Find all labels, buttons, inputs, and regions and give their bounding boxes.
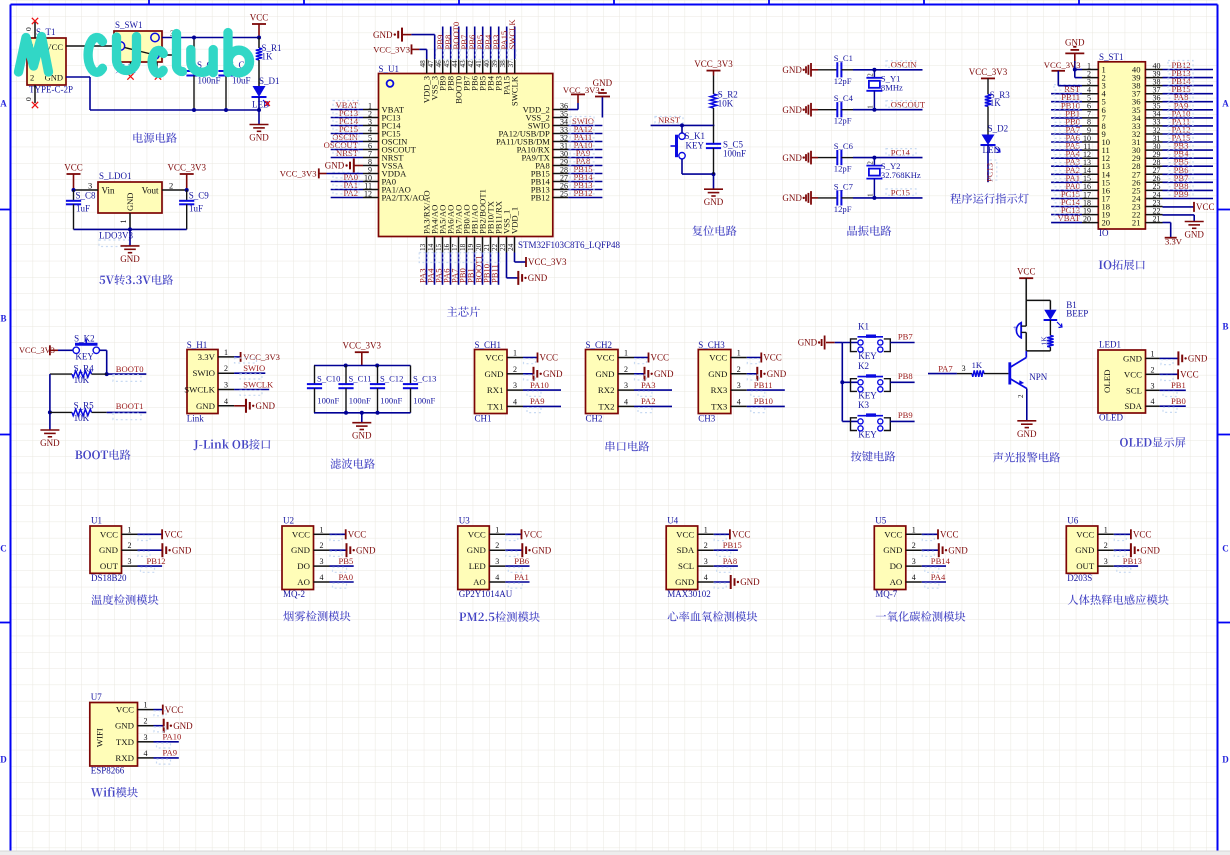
svg-text:VCC: VCC <box>468 529 486 539</box>
connector S_H1 J-Link <box>187 350 218 414</box>
U1 pin 3 PC14 <box>363 125 379 127</box>
svg-text:2: 2 <box>1104 541 1108 550</box>
svg-text:1: 1 <box>119 220 128 224</box>
svg-text:100nF: 100nF <box>198 76 221 86</box>
U1 pin 15 PA5/AO <box>442 237 444 253</box>
svg-text:CH1: CH1 <box>475 414 492 424</box>
capacitor S_C8 1uF <box>73 190 75 201</box>
svg-text:4: 4 <box>1151 397 1155 406</box>
svg-text:S_CH2: S_CH2 <box>586 340 613 350</box>
svg-text:2: 2 <box>224 364 228 373</box>
title U7 <box>91 788 103 796</box>
wire net PC14 <box>853 157 923 159</box>
svg-text:GND: GND <box>115 721 134 731</box>
S_ST1 pin 1 <box>1082 69 1098 71</box>
svg-text:B: B <box>0 314 6 324</box>
svg-text:PB13: PB13 <box>1123 556 1142 566</box>
resistor S_R3 1K <box>985 94 991 106</box>
S_ST1 pin 5 <box>1082 101 1098 103</box>
svg-text:10K: 10K <box>74 375 90 385</box>
title reset circuit <box>692 225 702 235</box>
svg-text:12pF: 12pF <box>834 76 852 86</box>
U1 pin 20 PB2/BOOT1 <box>482 237 484 253</box>
capacitor S_C6 12pF <box>818 157 837 159</box>
svg-text:GND: GND <box>782 153 802 163</box>
svg-text:U7: U7 <box>91 692 102 702</box>
LED S_D2 <box>982 135 995 146</box>
power VCC at LED1 pin2 <box>1160 373 1179 375</box>
wire emitter to ground <box>1026 389 1028 421</box>
net PA2 at S_CH2 TX <box>634 405 672 407</box>
U1 pin 6 OSCOUT <box>363 149 379 151</box>
svg-text:100nF: 100nF <box>380 396 402 406</box>
svg-text:2: 2 <box>128 541 132 550</box>
svg-text:21: 21 <box>1132 218 1141 228</box>
svg-text:AO: AO <box>890 577 903 587</box>
S_ST1 pin 13 <box>1082 165 1098 167</box>
S_ST1 pin 10 <box>1082 141 1098 143</box>
key S_K1 KEY <box>679 133 685 139</box>
U1 pin 18 PB0/AO <box>466 237 468 253</box>
svg-text:GND: GND <box>595 369 614 379</box>
svg-text:VCC_3V3: VCC_3V3 <box>1044 60 1081 70</box>
U1 pin 24 VDD_1 <box>514 237 516 253</box>
capacitor S_C13 100nF <box>410 366 412 385</box>
svg-text:PB12: PB12 <box>147 556 166 566</box>
ground GND at U4 pin 4 <box>714 581 731 583</box>
svg-text:OUT: OUT <box>100 561 119 571</box>
svg-text:Vout: Vout <box>142 186 159 196</box>
svg-text:S_K2: S_K2 <box>74 334 95 344</box>
svg-text:CH3: CH3 <box>698 414 716 424</box>
svg-text:GND: GND <box>1065 37 1085 47</box>
module U6 D203S body <box>1066 526 1098 573</box>
U1 pin 30 PA9/TX <box>553 157 568 159</box>
module U5 MQ-7 body <box>874 526 906 590</box>
title filter circuit <box>330 458 341 468</box>
svg-text:S_C10: S_C10 <box>317 374 340 384</box>
svg-text:VCC: VCC <box>1180 370 1199 380</box>
svg-text:VBAT: VBAT <box>1058 213 1081 223</box>
svg-text:PA0: PA0 <box>339 572 354 582</box>
svg-text:GND: GND <box>99 545 118 555</box>
wire pin2 <box>162 189 187 191</box>
svg-text:RX3: RX3 <box>711 385 728 395</box>
S_ST1 pin 28 <box>1145 165 1162 167</box>
svg-text:4: 4 <box>912 573 916 582</box>
svg-text:2: 2 <box>144 717 148 726</box>
svg-text:1K: 1K <box>990 98 1002 108</box>
U1 pin 16 PA6/AO <box>450 237 452 253</box>
svg-text:GND: GND <box>249 133 269 143</box>
svg-text:B: B <box>1222 322 1228 332</box>
U1 pin 7 NRST <box>363 157 379 159</box>
svg-text:1uF: 1uF <box>76 204 90 214</box>
svg-text:21: 21 <box>1153 214 1161 223</box>
svg-text:12pF: 12pF <box>834 204 852 214</box>
svg-text:3: 3 <box>624 381 628 390</box>
svg-text:S_C4: S_C4 <box>834 93 854 103</box>
zone ticks left <box>0 209 11 211</box>
svg-text:VCC_3V3: VCC_3V3 <box>280 168 317 178</box>
title IO expansion <box>1099 261 1103 269</box>
U1 pin 35 VSS_2 <box>553 117 568 119</box>
title U1 <box>91 595 102 605</box>
svg-text:PB14: PB14 <box>931 556 951 566</box>
S_ST1 pin 32 <box>1145 133 1162 135</box>
power VCC_3V3 at S_H1 pin1 <box>234 356 241 358</box>
top rail filter <box>314 365 411 367</box>
svg-text:PB12: PB12 <box>573 188 592 198</box>
title crystal circuit <box>847 226 857 236</box>
bottom wire LDO3V3 net <box>74 228 187 230</box>
svg-text:GND: GND <box>704 197 724 207</box>
U1 pin 26 PB13 <box>553 189 568 191</box>
ground GND at U1 pin23 VSS_1 <box>506 253 508 278</box>
S_ST1 pin 30 <box>1145 149 1162 151</box>
S_ST1 pin 26 <box>1145 181 1162 183</box>
module U4 MAX30102 body <box>666 526 698 590</box>
net PA9 at S_CH1 TX <box>523 405 561 407</box>
svg-text:3: 3 <box>495 557 499 566</box>
svg-text:U6: U6 <box>1067 515 1078 525</box>
svg-text:LED: LED <box>469 561 486 571</box>
net PB0 at LED1 pin4 <box>1160 405 1186 407</box>
svg-text:CH2: CH2 <box>586 414 603 424</box>
svg-text:S_C6: S_C6 <box>834 141 854 151</box>
svg-text:S_R4: S_R4 <box>74 363 95 373</box>
power VCC_3V3 indicator <box>981 77 995 79</box>
svg-text:VCC_3V3: VCC_3V3 <box>243 352 280 362</box>
svg-text:GND: GND <box>1075 545 1094 555</box>
S_ST1 pin 33 <box>1145 125 1162 127</box>
svg-text:3: 3 <box>88 181 92 191</box>
ground GND power circuit <box>250 124 269 126</box>
S_ST1 pin 31 <box>1145 141 1162 143</box>
svg-text:U4: U4 <box>667 515 678 525</box>
svg-text:PB1: PB1 <box>1171 380 1186 390</box>
svg-text:GND: GND <box>467 545 486 555</box>
svg-text:PA2: PA2 <box>344 188 359 198</box>
svg-text:VCC: VCC <box>763 353 782 363</box>
svg-text:VCC: VCC <box>1196 202 1215 212</box>
LDO GND pin wire <box>129 213 131 229</box>
ground GND filter <box>352 422 371 424</box>
svg-text:100nF: 100nF <box>317 396 339 406</box>
net PA4 at U5 pin 4 <box>922 581 946 583</box>
svg-text:LED1: LED1 <box>1099 340 1121 350</box>
wire net OSCIN <box>853 69 923 71</box>
svg-text:GND: GND <box>543 369 563 379</box>
wire to ground <box>129 229 131 246</box>
svg-text:1: 1 <box>495 525 499 534</box>
title key circuit <box>851 451 862 461</box>
svg-text:U2: U2 <box>283 515 294 525</box>
net PB15 at U4 pin 2 <box>714 549 738 551</box>
svg-text:100nF: 100nF <box>349 396 371 406</box>
svg-text:PB9: PB9 <box>898 410 913 420</box>
svg-text:PA10: PA10 <box>163 732 182 742</box>
svg-text:2: 2 <box>513 365 517 374</box>
svg-text:37: 37 <box>506 60 515 68</box>
svg-text:PB11: PB11 <box>489 264 499 283</box>
svg-text:NPN: NPN <box>1029 372 1048 382</box>
ground GND at U1 pin 2 <box>138 549 163 551</box>
svg-text:OUT: OUT <box>1076 561 1095 571</box>
svg-text:PA1: PA1 <box>514 572 529 582</box>
svg-text:2: 2 <box>1017 394 1025 398</box>
ground GND LDO <box>121 245 140 247</box>
svg-text:1uF: 1uF <box>189 204 203 214</box>
capacitor S_C3 10uF <box>225 38 227 72</box>
svg-text:VCC_3V3: VCC_3V3 <box>373 44 410 54</box>
svg-text:VCC_3V3: VCC_3V3 <box>694 59 733 69</box>
power VCC at pin 23 <box>1163 206 1195 208</box>
U1 pin 41 PB5 <box>482 59 484 74</box>
wire key to BOOT0 <box>100 349 107 351</box>
svg-text:GND: GND <box>1140 545 1160 555</box>
S_ST1 pin 8 <box>1082 125 1098 127</box>
LED S_D1 <box>253 86 266 97</box>
svg-text:1K: 1K <box>972 360 983 370</box>
svg-text:0: 0 <box>24 27 33 31</box>
svg-text:VCC_3V3: VCC_3V3 <box>528 257 567 267</box>
svg-text:RX2: RX2 <box>598 385 615 395</box>
U1 pin 11 PA1/AO <box>363 189 379 191</box>
power VCC_3V3 reset <box>707 70 721 72</box>
net PA10 at S_CH1 RX <box>523 389 561 391</box>
resistor 1K alarm <box>1049 320 1051 336</box>
svg-text:1: 1 <box>513 349 517 358</box>
svg-text:PA4: PA4 <box>931 572 946 582</box>
svg-text:TX1: TX1 <box>487 401 503 411</box>
wire collector node <box>1026 350 1050 352</box>
S_ST1 pin 34 <box>1145 117 1162 119</box>
svg-text:12pF: 12pF <box>834 164 852 174</box>
ground GND at U1 pin8 VSSA <box>354 165 363 167</box>
svg-text:AO: AO <box>473 577 486 587</box>
svg-text:TX2: TX2 <box>598 401 614 411</box>
svg-text:U5: U5 <box>875 515 886 525</box>
U1 pin 39 PB3 <box>498 59 500 74</box>
ground GND at S_CH2 <box>634 373 645 375</box>
title program run indicator <box>950 193 961 203</box>
svg-text:PA3: PA3 <box>641 380 656 390</box>
svg-text:VCC: VCC <box>524 530 543 540</box>
svg-text:DO: DO <box>890 561 903 571</box>
svg-text:SCL: SCL <box>678 561 694 571</box>
power VCC_3V3 at U1 pin24 VDD_1 <box>514 253 516 263</box>
svg-text:3.3V: 3.3V <box>198 352 216 362</box>
S_ST1 pin 40 <box>1145 69 1162 71</box>
S_ST1 pin 25 <box>1145 189 1162 191</box>
svg-text:PB8: PB8 <box>898 371 913 381</box>
net PB5 at U2 pin 3 <box>330 565 354 567</box>
svg-text:GND: GND <box>373 30 393 40</box>
svg-text:Link: Link <box>187 414 204 424</box>
title 5V to 3.3V <box>99 276 105 285</box>
svg-text:BOOT0: BOOT0 <box>116 364 144 374</box>
S_ST1 pin 36 <box>1145 101 1162 103</box>
svg-text:S_LDO1: S_LDO1 <box>99 171 132 181</box>
wire pin3 <box>74 189 99 191</box>
svg-text:VCC: VCC <box>1124 369 1142 379</box>
svg-text:OSCIN: OSCIN <box>891 60 918 70</box>
svg-text:1: 1 <box>737 349 741 358</box>
svg-text:DS18B20: DS18B20 <box>91 573 127 583</box>
S_ST1 pin 20 <box>1082 222 1098 224</box>
zone ticks right <box>1218 209 1230 211</box>
ground GND at U2 pin 2 <box>330 549 347 551</box>
svg-text:BEEP: BEEP <box>1066 309 1088 319</box>
svg-text:3: 3 <box>1104 557 1108 566</box>
svg-text:3: 3 <box>144 733 148 742</box>
wire net OSCOUT <box>853 109 923 111</box>
svg-text:S_CH3: S_CH3 <box>698 340 725 350</box>
wire LED to GND <box>258 97 260 125</box>
svg-text:PB0: PB0 <box>1171 396 1186 406</box>
net SWCLK at S_H1 pin3 <box>234 389 269 391</box>
svg-text:3: 3 <box>962 364 966 373</box>
svg-text:GND: GND <box>532 545 552 555</box>
ground GND at LED1 pin1 <box>1160 357 1179 359</box>
power VCC alarm <box>1019 277 1033 279</box>
svg-text:SWCLK: SWCLK <box>507 19 517 50</box>
svg-text:RX1: RX1 <box>487 385 504 395</box>
U1 pin 38 PA15 <box>506 59 508 74</box>
resistor S_R1 1K <box>258 38 260 49</box>
svg-text:GND: GND <box>798 338 818 348</box>
svg-text:S_C13: S_C13 <box>413 374 436 384</box>
svg-text:D: D <box>1222 755 1229 765</box>
svg-text:2: 2 <box>495 541 499 550</box>
svg-text:GND: GND <box>1017 429 1037 439</box>
net PB8 at K2 <box>890 381 914 383</box>
svg-text:D203S: D203S <box>1067 573 1092 583</box>
svg-text:3: 3 <box>128 557 132 566</box>
S_ST1 pin 12 <box>1082 157 1098 159</box>
svg-text:VCC: VCC <box>709 353 727 363</box>
svg-text:S_D1: S_D1 <box>259 76 280 86</box>
svg-text:SDA: SDA <box>1124 401 1142 411</box>
svg-text:GND: GND <box>172 545 192 555</box>
MCUclub watermark logo <box>19 33 250 74</box>
S_ST1 pin 11 <box>1082 149 1098 151</box>
S_ST1 pin 15 <box>1082 181 1098 183</box>
U1 pin 33 PA12/USB/DP <box>553 133 568 135</box>
S_ST1 pin 21 <box>1145 222 1162 224</box>
svg-text:SWCLK: SWCLK <box>510 75 520 106</box>
svg-text:2: 2 <box>866 73 874 77</box>
svg-text:VCC: VCC <box>1133 530 1152 540</box>
U1 pin 36 VDD_2 <box>553 109 568 111</box>
capacitor S_C2 100nF <box>193 38 195 72</box>
svg-text:32.768KHz: 32.768KHz <box>881 170 921 180</box>
module U7 ESP8266 body <box>90 703 138 767</box>
svg-text:GND: GND <box>484 369 503 379</box>
U1 pin 10 PA0 <box>363 181 379 183</box>
svg-text:1: 1 <box>144 701 148 710</box>
svg-text:S_R5: S_R5 <box>74 401 95 411</box>
svg-text:PA9: PA9 <box>163 748 178 758</box>
svg-text:SWIO: SWIO <box>193 368 215 378</box>
svg-text:IO: IO <box>1099 228 1109 238</box>
power VCC at U2 pin 1 <box>330 533 346 535</box>
svg-text:1: 1 <box>624 349 628 358</box>
svg-text:3: 3 <box>320 557 324 566</box>
svg-text:GND: GND <box>1184 230 1204 240</box>
net PB12 at U1 pin 3 <box>138 565 163 567</box>
U1 pin 19 PB1/AO <box>474 237 476 253</box>
svg-text:PB7: PB7 <box>898 331 914 341</box>
U1 pin 13 PA3/RX/AO <box>426 237 428 253</box>
S_ST1 pin 35 <box>1145 109 1162 111</box>
power port VCC_3V3 right <box>180 173 194 175</box>
svg-text:PB5: PB5 <box>339 556 354 566</box>
U1 pin 31 PA10/RX <box>553 149 568 151</box>
svg-text:PA2: PA2 <box>641 396 656 406</box>
U1 pin 47 VSS_3 <box>434 59 436 74</box>
capacitor S_C1 12pF <box>818 69 837 71</box>
svg-text:A: A <box>1222 99 1229 109</box>
title J-Link OB <box>193 440 198 450</box>
svg-text:VCC: VCC <box>884 529 902 539</box>
svg-text:NRST: NRST <box>336 148 359 158</box>
U1 pin 48 VDD_3 <box>426 59 428 74</box>
svg-text:DO: DO <box>297 561 310 571</box>
ground GND at U7 pin 2 <box>154 725 164 727</box>
svg-text:TXD: TXD <box>116 737 134 747</box>
power VCC at U7 pin 1 <box>154 709 163 711</box>
U1 pin 9 VDDA <box>363 173 379 175</box>
left rail BOOT <box>49 374 51 430</box>
svg-text:MQ-7: MQ-7 <box>875 589 897 599</box>
title U5 <box>876 615 886 616</box>
U1 pin 34 SWIO <box>553 125 568 127</box>
svg-text:2: 2 <box>912 541 916 550</box>
U1 pin 4 PC15 <box>363 133 379 135</box>
svg-text:GND: GND <box>883 545 902 555</box>
svg-text:WIFI: WIFI <box>94 728 104 747</box>
ground GND at U1 pin35 VSS_2 <box>601 97 603 118</box>
capacitor S_C5 100nF <box>713 125 715 143</box>
svg-text:VCC: VCC <box>596 353 614 363</box>
svg-text:S_C8: S_C8 <box>76 191 97 201</box>
svg-text:VCC: VCC <box>292 529 310 539</box>
svg-text:S_C1: S_C1 <box>834 53 853 63</box>
U1 pin 37 SWCLK <box>514 59 516 74</box>
svg-text:12pF: 12pF <box>834 116 852 126</box>
svg-text:VCC: VCC <box>348 530 367 540</box>
svg-text:4: 4 <box>737 397 741 406</box>
svg-text:GND: GND <box>1188 354 1208 364</box>
svg-text:2: 2 <box>866 161 874 165</box>
svg-text:10K: 10K <box>74 413 90 423</box>
svg-text:3: 3 <box>912 557 916 566</box>
wire to LED branch <box>1026 299 1050 301</box>
ground GND BOOT <box>40 429 59 431</box>
svg-text:K3: K3 <box>858 400 869 410</box>
U1 pin 42 PB6 <box>474 59 476 74</box>
ground GND at S_CH1 <box>523 373 534 375</box>
svg-text:100nF: 100nF <box>723 149 746 159</box>
regulator S_LDO1 <box>98 182 162 213</box>
net PB6 at U3 pin 3 <box>505 565 529 567</box>
svg-text:VCC: VCC <box>732 530 751 540</box>
ground GND at U3 pin 2 <box>505 549 522 551</box>
resistor S_R5 10K <box>50 411 72 413</box>
capacitor S_C7 12pF <box>818 197 837 199</box>
